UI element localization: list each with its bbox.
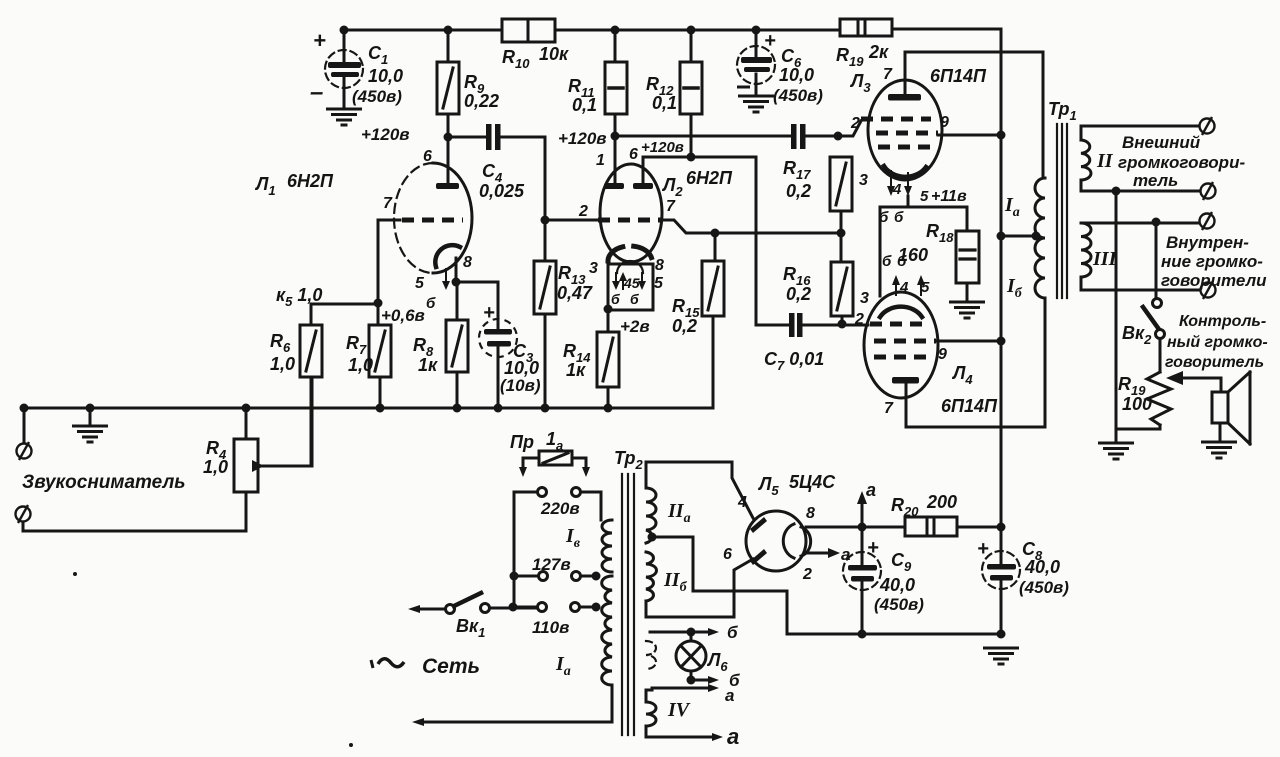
- svg-text:0,1: 0,1: [572, 95, 597, 115]
- svg-text:10,0: 10,0: [504, 358, 539, 378]
- svg-text:5: 5: [920, 188, 929, 205]
- svg-text:ный громко-: ный громко-: [1167, 334, 1268, 351]
- svg-text:1к: 1к: [418, 355, 438, 375]
- svg-text:4: 4: [737, 494, 747, 511]
- svg-text:8: 8: [806, 505, 815, 522]
- svg-text:Сеть: Сеть: [422, 655, 480, 678]
- svg-text:6Н2П: 6Н2П: [686, 168, 733, 188]
- svg-text:3: 3: [859, 172, 868, 189]
- svg-text:4: 4: [892, 181, 902, 198]
- svg-text:(450в): (450в): [1019, 578, 1069, 597]
- svg-text:(450в): (450в): [773, 86, 823, 105]
- svg-text:0,2: 0,2: [786, 181, 811, 201]
- svg-text:6: 6: [629, 146, 638, 163]
- svg-text:7: 7: [883, 66, 893, 83]
- svg-text:б: б: [882, 253, 892, 270]
- svg-text:+0,6в: +0,6в: [381, 306, 425, 325]
- svg-text:III: III: [1092, 248, 1118, 270]
- svg-text:б: б: [879, 209, 889, 226]
- svg-text:(10в): (10в): [500, 376, 541, 395]
- svg-text:–: –: [310, 79, 323, 106]
- svg-text:10,0: 10,0: [779, 65, 814, 85]
- svg-text:6: 6: [423, 148, 432, 165]
- svg-text:200: 200: [926, 492, 957, 512]
- svg-text:б: б: [894, 209, 904, 226]
- svg-text:5: 5: [415, 275, 425, 292]
- svg-text:а: а: [725, 686, 734, 705]
- svg-text:(450в): (450в): [874, 595, 924, 614]
- svg-text:(450в): (450в): [352, 87, 402, 106]
- svg-text:2: 2: [854, 311, 864, 328]
- svg-text:5: 5: [654, 275, 664, 292]
- svg-text:2: 2: [578, 203, 588, 220]
- svg-text:1,0: 1,0: [203, 457, 228, 477]
- svg-text:6П14П: 6П14П: [941, 396, 998, 416]
- svg-text:2: 2: [802, 566, 812, 583]
- svg-text:говоритель: говоритель: [1165, 354, 1264, 371]
- svg-text:0,2: 0,2: [786, 284, 811, 304]
- svg-text:Звукосниматель: Звукосниматель: [22, 472, 186, 493]
- svg-text:3: 3: [860, 290, 869, 307]
- svg-text:II: II: [1096, 150, 1114, 172]
- svg-text:8: 8: [463, 254, 472, 271]
- svg-text:0,1: 0,1: [652, 93, 677, 113]
- svg-text:б: б: [727, 623, 738, 642]
- svg-text:+: +: [977, 538, 989, 560]
- svg-text:0,47: 0,47: [557, 283, 593, 303]
- svg-text:5Ц4С: 5Ц4С: [789, 472, 836, 492]
- svg-text:+120в: +120в: [558, 129, 607, 148]
- svg-text:7: 7: [884, 400, 894, 417]
- svg-text:4: 4: [899, 279, 909, 296]
- svg-text:5: 5: [921, 279, 930, 296]
- svg-text:а: а: [727, 724, 739, 749]
- svg-text:9: 9: [938, 346, 947, 363]
- svg-text:ние громко-: ние громко-: [1161, 252, 1263, 271]
- svg-text:а: а: [866, 480, 876, 500]
- svg-text:+: +: [483, 302, 495, 324]
- svg-text:10,0: 10,0: [368, 66, 403, 86]
- svg-text:б: б: [897, 253, 907, 270]
- svg-text:Внешний: Внешний: [1122, 133, 1201, 152]
- svg-text:2к: 2к: [868, 42, 889, 62]
- svg-text:1к: 1к: [566, 360, 586, 380]
- svg-text:1,0: 1,0: [270, 354, 295, 374]
- svg-text:б: б: [611, 291, 620, 307]
- svg-text:0,2: 0,2: [672, 316, 697, 336]
- svg-text:Внутрен-: Внутрен-: [1166, 233, 1249, 252]
- svg-text:7: 7: [666, 198, 676, 215]
- svg-text:110в: 110в: [532, 618, 569, 637]
- svg-text:100: 100: [1122, 394, 1152, 414]
- svg-text:+120в: +120в: [641, 139, 684, 156]
- svg-text:+11в: +11в: [931, 188, 967, 205]
- svg-text:127в: 127в: [532, 555, 571, 574]
- svg-text:+: +: [764, 30, 776, 52]
- svg-text:6Н2П: 6Н2П: [287, 171, 334, 191]
- svg-text:+2в: +2в: [620, 317, 650, 336]
- svg-text:б: б: [630, 291, 639, 307]
- svg-text:45: 45: [623, 275, 640, 291]
- svg-text:+120в: +120в: [361, 125, 410, 144]
- svg-text:40,0: 40,0: [1024, 557, 1060, 577]
- svg-text:тель: тель: [1133, 171, 1178, 190]
- svg-text:40,0: 40,0: [879, 575, 915, 595]
- svg-text:3: 3: [589, 260, 598, 277]
- svg-text:2: 2: [850, 115, 860, 132]
- svg-text:Пр: Пр: [510, 432, 534, 452]
- svg-text:а: а: [841, 545, 850, 564]
- svg-text:громкоговори-: громкоговори-: [1118, 153, 1245, 172]
- svg-text:говорители: говорители: [1161, 271, 1267, 290]
- svg-text:Контроль-: Контроль-: [1179, 313, 1266, 330]
- svg-text:0,025: 0,025: [479, 181, 525, 201]
- svg-text:8: 8: [655, 257, 664, 274]
- svg-text:7: 7: [383, 195, 393, 212]
- svg-text:1: 1: [596, 152, 605, 169]
- svg-text:б: б: [426, 295, 436, 312]
- svg-text:1,0: 1,0: [348, 355, 373, 375]
- svg-text:10к: 10к: [539, 44, 569, 64]
- svg-text:IV: IV: [667, 699, 691, 721]
- svg-text:+: +: [313, 28, 326, 53]
- svg-text:6П14П: 6П14П: [930, 66, 987, 86]
- svg-text:0,22: 0,22: [464, 91, 499, 111]
- svg-text:9: 9: [940, 114, 949, 131]
- svg-text:6: 6: [723, 546, 732, 563]
- svg-text:+: +: [867, 537, 879, 559]
- svg-text:220в: 220в: [540, 499, 580, 518]
